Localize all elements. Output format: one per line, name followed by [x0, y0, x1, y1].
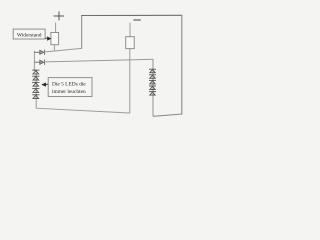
- LED D1 (left chain): [32, 70, 39, 74]
- wire top rail: [81, 14, 182, 16]
- wire from - down to R2: [129, 23, 131, 37]
- label box "Widerstand": [13, 29, 45, 39]
- LED D2 (left chain): [32, 76, 39, 80]
- LED D8 (right chain): [149, 69, 156, 73]
- LED D10 (right chain): [149, 80, 156, 84]
- arrow from LED label to left chain: [42, 83, 48, 86]
- wire right chain drop: [152, 59, 154, 116]
- resistor R1 (Widerstand): [51, 33, 59, 45]
- wire left rail: [34, 51, 36, 105]
- minus terminal -: [133, 19, 140, 21]
- wire riser x=81.7: [81, 16, 83, 49]
- svg-text:immer leuchten: immer leuchten: [52, 89, 86, 95]
- plus terminal +: [54, 11, 64, 20]
- svg-text:Die 5 LEDs die: Die 5 LEDs die: [52, 82, 86, 88]
- wire W2: diode D7 cathode to right chain top: [45, 59, 153, 62]
- LED D3 (left chain): [32, 82, 39, 86]
- wire from R2 bottom down to bottom node: [129, 49, 131, 114]
- wire from + down to R1: [55, 23, 57, 33]
- wire W1: diode D6 cathode to right riser: [45, 48, 81, 52]
- LED D9 (right chain): [149, 75, 156, 79]
- diode D6 (horizontal, upper): [34, 50, 44, 55]
- LED D12 (right chain): [149, 92, 156, 96]
- wire right edge: [181, 15, 183, 114]
- LED D5 (left chain): [32, 95, 39, 99]
- wire from R1 bottom down: [53, 45, 55, 51]
- wire bottom left sloped (chain bottom to R2 bottom): [36, 105, 130, 113]
- arrow from Widerstand label to R1: [45, 37, 50, 40]
- wire bottom right segment: [153, 114, 182, 116]
- svg-text:Widerstand: Widerstand: [17, 33, 42, 39]
- diode D7 (horizontal, lower): [34, 60, 44, 65]
- resistor R2: [126, 37, 135, 49]
- LED D4 (left chain): [32, 89, 39, 93]
- LED D11 (right chain): [149, 86, 156, 90]
- label box "Die 5 LEDs die immer leuchten": [48, 78, 92, 97]
